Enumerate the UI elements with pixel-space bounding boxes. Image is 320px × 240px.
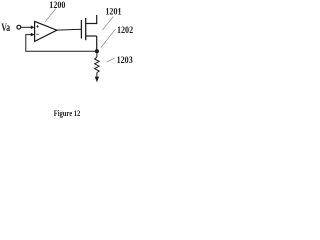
svg-text:1203: 1203 (117, 54, 134, 65)
svg-text:Va: Va (1, 22, 10, 35)
resistor / current sink 1203 (95, 53, 99, 82)
leader 1200 (45, 9, 56, 22)
leader 1202 (101, 29, 116, 48)
wire feedback bottom (25, 50, 97, 52)
input terminal (17, 25, 21, 29)
svg-text:1202: 1202 (117, 24, 134, 35)
svg-text:Figure 12: Figure 12 (54, 109, 81, 119)
arrowhead - input (31, 33, 35, 37)
junction node (95, 49, 99, 53)
transistor M1201 (81, 15, 96, 50)
leader 1203 (107, 58, 115, 62)
svg-text:1200: 1200 (49, 0, 66, 10)
svg-text:1201: 1201 (105, 6, 121, 17)
arrowhead + input (31, 26, 35, 30)
wire feedback arrow into - input (26, 34, 32, 36)
wire Va to + input (21, 26, 32, 28)
op-amp U1200 (35, 21, 57, 41)
leader 1201 (103, 17, 114, 31)
wire op-amp output to gate (57, 28, 82, 31)
wire feedback riser (25, 34, 27, 51)
